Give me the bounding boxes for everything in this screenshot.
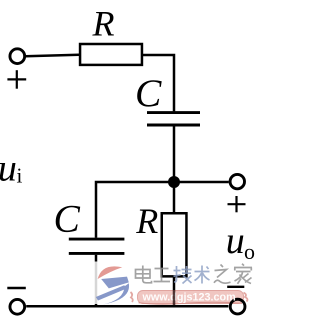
svg-text:www.dgjs123.com: www.dgjs123.com bbox=[142, 291, 236, 303]
terminal input top-left bbox=[10, 49, 25, 64]
wire node A down to R2 bbox=[173, 182, 176, 213]
svg-text:C: C bbox=[135, 71, 162, 115]
terminal bottom-left bbox=[10, 299, 25, 314]
svg-text:R: R bbox=[92, 4, 115, 44]
wire top-left (input + terminal to R1) bbox=[26, 55, 80, 57]
svg-text:o: o bbox=[244, 239, 255, 264]
wire C1 bottom to node A bbox=[173, 126, 176, 182]
之 bbox=[214, 265, 231, 284]
技 bbox=[174, 266, 192, 284]
svg-text:R: R bbox=[135, 201, 158, 241]
svg-text:u: u bbox=[0, 148, 17, 190]
capacitor C2 bbox=[69, 239, 125, 253]
wire bottom rail bbox=[26, 305, 228, 308]
watermark text 电工技术之家 (hand-drawn strokes) bbox=[136, 266, 171, 283]
watermark logo blue bolt bbox=[96, 277, 129, 305]
电 bbox=[136, 266, 152, 283]
capacitor C1 bbox=[147, 113, 200, 125]
terminal output right bbox=[230, 174, 244, 188]
node A junction dot bbox=[168, 176, 180, 188]
术 bbox=[195, 266, 210, 284]
wire R2-to-rail seen through ribbon bbox=[173, 290, 176, 304]
watermark logo red swoosh bbox=[98, 266, 123, 279]
svg-text:i: i bbox=[17, 164, 23, 188]
工 bbox=[154, 269, 171, 282]
resistor R1 bbox=[80, 44, 142, 65]
svg-text:u: u bbox=[226, 220, 245, 262]
wire node row (left corner through node A to output terminal) bbox=[96, 182, 229, 238]
plus sign (output) bbox=[228, 196, 246, 212]
svg-text:C: C bbox=[54, 197, 81, 241]
wire bottom rail (over logo) bbox=[90, 305, 140, 308]
wire R2 bottom to bottom rail bbox=[173, 277, 176, 306]
resistor R2 bbox=[162, 213, 187, 276]
家 bbox=[234, 264, 252, 284]
watermark url ribbon bbox=[131, 291, 248, 305]
wire R1 right to capacitor C1 top bbox=[142, 55, 174, 111]
minus sign (bottom-left) bbox=[7, 287, 26, 289]
minus sign (bottom-right) bbox=[227, 286, 244, 288]
wire C2 bottom to bottom rail bbox=[95, 255, 98, 306]
terminal bottom-right bbox=[230, 299, 245, 314]
plus sign (input) bbox=[7, 70, 26, 89]
watermark logo background box bbox=[93, 262, 140, 305]
